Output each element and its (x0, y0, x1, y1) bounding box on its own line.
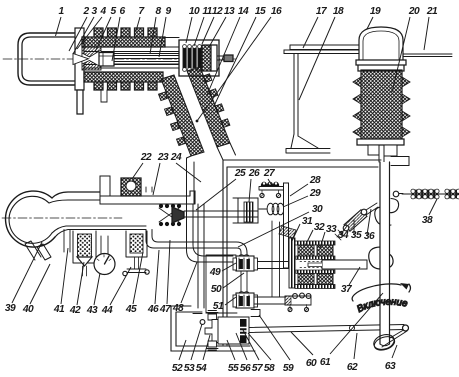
svg-text:16: 16 (271, 6, 282, 17)
upper hook on shaft (381, 199, 399, 213)
bead chain 38 beads group1 (411, 189, 439, 199)
svg-text:15: 15 (255, 6, 266, 17)
svg-text:59: 59 (283, 363, 294, 374)
neck inner line (49, 200, 100, 203)
leader 4 (77, 17, 102, 49)
svg-text:23: 23 (157, 152, 169, 163)
svg-text:55: 55 (228, 363, 239, 374)
bottom collar plates (357, 139, 404, 145)
winding hump holes (263, 182, 277, 184)
core gap contact dots upper (300, 261, 324, 263)
leader 57 (243, 330, 259, 360)
piston stack slits (240, 328, 247, 335)
cap 1 inner wall (22, 37, 74, 81)
leader 63 (392, 345, 397, 358)
long control rod 60 (249, 325, 404, 333)
solenoid 51 flanges (233, 295, 237, 307)
leader 27 (268, 179, 271, 184)
filter block center hole (126, 181, 136, 191)
leader 17 (303, 17, 318, 48)
svg-text:33: 33 (326, 224, 337, 235)
leader 37 (349, 267, 360, 285)
svg-text:47: 47 (159, 304, 172, 315)
centerline main horizontal axis (3, 58, 237, 60)
svg-text:46: 46 (147, 304, 159, 315)
coil winding lower left (298, 274, 314, 285)
end plug 12 (211, 45, 217, 71)
leader 44 (110, 267, 131, 305)
solenoid 51 winding marks (239, 292, 249, 306)
leader 51 (225, 297, 236, 305)
ignition coil core 31 laminated bar (289, 238, 295, 288)
link 36 to shaft (366, 203, 378, 215)
check valve 44 housing (126, 231, 147, 257)
leader 16 end dot (196, 120, 199, 123)
svg-text:34: 34 (338, 230, 349, 241)
svg-text:25: 25 (234, 168, 246, 179)
svg-text:26: 26 (248, 168, 260, 179)
shaft bottom tip (380, 344, 390, 346)
leader 41 (61, 248, 68, 304)
needle rod to holder (184, 211, 258, 217)
lower terminal screws (293, 294, 298, 299)
stem neck to shaft (379, 155, 384, 162)
svg-text:41: 41 (53, 304, 65, 315)
leader 24 (176, 163, 201, 182)
svg-text:28: 28 (309, 175, 321, 186)
leader 48 (181, 262, 197, 303)
piston 5 (99, 53, 114, 67)
cap 1 outer shell (18, 33, 74, 85)
insulator fins right (402, 77, 410, 137)
svg-text:45: 45 (125, 304, 137, 315)
svg-text:51: 51 (213, 301, 224, 312)
leader 11 (194, 17, 204, 46)
leader 6 (112, 17, 120, 61)
svg-text:21: 21 (426, 6, 438, 17)
air valve 42 mesh cage (78, 234, 92, 257)
drain pipe 40 left (25, 241, 41, 260)
bracket base plate (286, 149, 330, 154)
leader 28 (290, 184, 308, 196)
petcock end balls (123, 271, 127, 275)
leader 42 (77, 262, 84, 305)
holder hatched gland (244, 202, 253, 222)
solenoid 49 flanges (233, 258, 237, 270)
rotation arrowhead (400, 283, 409, 290)
svg-text:6: 6 (119, 6, 125, 17)
wire from hook to bead chain (399, 193, 403, 195)
terminal ground drops (288, 308, 292, 312)
leader 53 (191, 324, 202, 360)
stand upper plate (290, 45, 381, 50)
pressure gauge 43 dial (94, 254, 115, 275)
svg-text:5: 5 (110, 6, 116, 17)
outlet fitting bottom (207, 341, 219, 350)
svg-text:14: 14 (238, 6, 249, 17)
pipe A elbow from duct to solenoid 49 (146, 230, 247, 257)
leader 59 (259, 315, 290, 360)
leader 49 (222, 263, 236, 271)
mixing plate 23 (100, 191, 195, 204)
svg-text:18: 18 (333, 6, 344, 17)
armature plunger bar 37 (322, 260, 367, 269)
svg-text:38: 38 (422, 215, 433, 226)
bracket 18 vertical (294, 54, 298, 137)
leader 18 (299, 17, 335, 100)
panel outline around 49-51 labels (206, 255, 237, 313)
leader 21 (424, 17, 429, 50)
svg-text:17: 17 (316, 6, 328, 17)
svg-text:32: 32 (314, 222, 325, 233)
leader 9 (159, 17, 166, 57)
top collar plates (356, 60, 406, 71)
plunger notch (308, 263, 322, 267)
leader 47 (167, 240, 170, 304)
insulator fins left (353, 77, 361, 137)
venturi channel white hourglass (82, 50, 101, 67)
leader 45 (133, 252, 143, 304)
solenoid 51 dark coils (240, 296, 243, 306)
leader 23 (153, 163, 160, 195)
leader 40 (30, 264, 50, 304)
leader 43 (94, 273, 100, 305)
svg-text:63: 63 (385, 361, 396, 372)
fixed contact anchor hatched (279, 226, 296, 238)
breaker wires down (272, 221, 280, 297)
outlet fitting 59 on right top (251, 310, 260, 317)
svg-text:53: 53 (184, 363, 195, 374)
lower terminal block (285, 296, 311, 305)
body lower teeth (94, 82, 157, 90)
pump piston stack 58 dark column (240, 319, 247, 343)
svg-text:36: 36 (364, 231, 375, 242)
terminal drop symbols (261, 190, 263, 193)
diagonal tube 16 left hatched wall (161, 75, 204, 156)
duct bottom wall (52, 226, 146, 237)
svg-text:42: 42 (69, 305, 81, 316)
flange lower stem (77, 90, 83, 114)
adjuster knob end (224, 55, 233, 62)
insulator body 20 hatched (361, 70, 402, 139)
rod joint circle 61 (349, 325, 354, 330)
injector spring 25 upper coil dots (159, 204, 181, 226)
coil bottom plate (295, 285, 335, 289)
piston inner lines (99, 53, 114, 67)
support bracket left of plate 23 (100, 176, 110, 204)
leader 10 (186, 17, 192, 43)
pump box 52 outer wall (171, 306, 255, 351)
stand bar 17 (284, 50, 393, 54)
spring chamber housing 12 (179, 40, 219, 76)
valve 42 poppet (77, 257, 92, 266)
body top hatched band 7 (82, 37, 165, 47)
svg-text:31: 31 (302, 216, 313, 227)
solenoid 49 dark coils (240, 259, 243, 269)
piston T 54 (205, 320, 218, 343)
branch pipe below duct left (64, 230, 70, 253)
svg-text:39: 39 (5, 303, 16, 314)
leader 34 (341, 226, 347, 234)
resistor bar 27 base (259, 187, 284, 191)
gauge tick marks (97, 255, 111, 261)
core gap contact dots lower (300, 267, 324, 269)
svg-text:22: 22 (140, 152, 152, 163)
body lower hatched band (84, 72, 163, 82)
gauge 43 stem (101, 236, 108, 254)
svg-text:40: 40 (22, 304, 34, 315)
leader 58 (248, 333, 271, 360)
filter block 22 hatched (121, 178, 141, 196)
anchor below cylinder (335, 230, 344, 240)
lever collar ring around shaft (372, 332, 397, 352)
svg-text:57: 57 (252, 363, 264, 374)
check valve 44 mesh (130, 234, 143, 253)
injector spring zigzag (159, 208, 179, 222)
solenoid 49 winding marks (239, 255, 249, 269)
stem blocks below insulator (368, 145, 397, 156)
pipe A stub above duct (146, 187, 152, 192)
svg-text:7: 7 (138, 6, 145, 17)
nozzle cone 2 (73, 54, 89, 65)
piston rod 8 long tube (114, 54, 183, 65)
leader 13 (209, 17, 226, 47)
valve 42 stem (83, 266, 87, 276)
leader 22 (132, 163, 143, 179)
bead chain 38 dark ticks group2 (449, 190, 457, 199)
coil winding 32 upper left (298, 245, 314, 256)
leader 38 (429, 199, 437, 215)
float chamber ring 39 inner (9, 196, 52, 243)
hose nipple below body (101, 90, 107, 102)
leader 61 (330, 293, 383, 354)
leader 29 (283, 196, 308, 207)
leader 31 (292, 224, 300, 241)
svg-text:1: 1 (58, 6, 64, 17)
svg-text:4: 4 (99, 6, 106, 17)
chamber centerline (2, 217, 122, 219)
leader 7 (136, 17, 140, 31)
leader 39 (12, 242, 42, 303)
leader 54 (203, 335, 210, 360)
leader 3 (73, 17, 94, 54)
contact blade 28 vertical bar (284, 183, 289, 268)
rod holder bracket (233, 198, 258, 223)
venturi block hatched (82, 47, 101, 70)
electrode rod 21 (360, 54, 452, 57)
leader 26 (249, 179, 251, 202)
svg-text:62: 62 (347, 362, 358, 373)
svg-text:3: 3 (91, 6, 97, 17)
leader 15 (214, 17, 256, 106)
leader 19 (367, 17, 373, 29)
svg-text:50: 50 (211, 284, 222, 295)
petcock handle bar (127, 269, 146, 273)
leader 30 (238, 212, 309, 247)
tube lower channel left wall (187, 156, 195, 204)
valve 41 housing walls (73, 231, 96, 263)
spring coil end loops (183, 45, 202, 72)
solenoid valve 49 body (236, 256, 254, 271)
vertical feed pipe to lower box (198, 204, 204, 308)
svg-text:8: 8 (155, 6, 161, 17)
main box left wall (223, 160, 227, 345)
drain pipe 40 right (37, 244, 51, 260)
leader 12 (202, 17, 214, 44)
side block on shaft (391, 157, 409, 166)
spring 10 coils (183, 48, 201, 68)
pipe B elbow lower run (187, 204, 234, 262)
leader 35 (353, 219, 355, 234)
adjuster rod 13 (217, 56, 224, 60)
insulator dome 19 (359, 27, 403, 60)
leader 5 (95, 17, 111, 52)
lower terminal hatched end (285, 296, 291, 305)
coil winding lower right (317, 274, 333, 285)
leader 52 (179, 340, 186, 360)
lever 63 arms to collar (382, 330, 407, 347)
leader 8 (150, 17, 156, 54)
leader 20 (392, 17, 410, 92)
body top cooling teeth (94, 28, 157, 37)
drive shaft vertical (380, 162, 390, 344)
svg-text:54: 54 (196, 363, 207, 374)
inlet fitting 53 top (207, 311, 219, 321)
pump cylinder 55 housing (218, 317, 249, 344)
diagonal tube right teeth (203, 74, 230, 128)
leader 50 (223, 273, 244, 288)
coil top plate (295, 241, 335, 245)
dome inner line (363, 31, 399, 60)
leader 14 (207, 17, 240, 95)
bracket 18 foot (291, 134, 318, 148)
coil winding 33 upper right (317, 245, 333, 256)
leader 55 (227, 340, 235, 360)
leader 56 (236, 333, 247, 360)
mounting flange plate (75, 28, 84, 90)
contact spring 29 coil (259, 208, 267, 210)
neck from chamber to duct top (52, 192, 100, 198)
rotation arrow ellipse (352, 284, 410, 301)
upper winding base stripe (296, 256, 335, 259)
solenoid valve 51 body (236, 293, 254, 308)
svg-text:49: 49 (209, 267, 221, 278)
connecting pipe between solenoids (241, 271, 247, 293)
leader 2 (69, 17, 87, 51)
body outer casing outline (84, 38, 180, 69)
leader 62 (354, 333, 357, 359)
armature feed rod from solenoid (258, 262, 290, 269)
svg-text:10: 10 (189, 6, 200, 17)
injector needle cone 26 (172, 207, 184, 223)
svg-text:52: 52 (172, 363, 183, 374)
lower spiral catch on shaft (369, 247, 393, 269)
bead chain 38 dark ticks group1 (415, 190, 435, 199)
lever 63 pivot eye (403, 325, 409, 331)
leader 16 (197, 17, 271, 121)
svg-text:12: 12 (212, 6, 223, 17)
leader 32 (305, 230, 313, 246)
tube lower channel right wall (217, 143, 236, 160)
svg-text:9: 9 (165, 6, 171, 17)
leader 46 (155, 250, 159, 304)
svg-text:35: 35 (351, 230, 362, 241)
svg-text:44: 44 (101, 305, 113, 316)
fitting eye 53 (200, 320, 205, 325)
svg-text:60: 60 (306, 358, 317, 369)
bead chain 38 beads group2 (445, 189, 459, 199)
svg-text:29: 29 (309, 188, 321, 199)
svg-text:13: 13 (224, 6, 235, 17)
lower winding top stripe (296, 270, 335, 273)
main box top wall (223, 160, 381, 167)
leader 25 (196, 179, 236, 210)
cylinder end eye upper (361, 209, 367, 215)
diagonal tube left teeth (159, 92, 186, 146)
petcock 45 stem (135, 257, 139, 269)
svg-text:56: 56 (240, 363, 251, 374)
svg-text:2: 2 (82, 6, 89, 17)
svg-text:48: 48 (172, 303, 184, 314)
gauge needle (105, 256, 110, 264)
svg-text:27: 27 (263, 168, 276, 179)
svg-text:20: 20 (408, 6, 420, 17)
tensioner cylinder 34 tilted hatched (344, 210, 367, 232)
leader 1 (56, 17, 62, 36)
svg-text:61: 61 (320, 357, 331, 368)
middle catch hook (375, 207, 391, 226)
cylinder end eye lower (343, 225, 349, 231)
float chamber ring 39 outer (6, 191, 55, 247)
wire bar to terminal block (254, 297, 285, 304)
svg-text:24: 24 (170, 152, 182, 163)
svg-text:37: 37 (341, 284, 353, 295)
bead chain 38 wire (402, 193, 459, 195)
leader 36 (367, 209, 371, 235)
diagonal tube 16 right hatched wall (187, 67, 230, 147)
drive shaft white body (380, 162, 390, 345)
leader 60 (291, 332, 313, 355)
leader 33 (320, 232, 325, 248)
hook eye circle (393, 191, 399, 197)
svg-text:30: 30 (312, 204, 323, 215)
resistor 27 winding humps (261, 182, 279, 186)
spring retainer hatched 11 (202, 45, 211, 71)
rotation text Включение (359, 305, 419, 313)
svg-text:58: 58 (264, 363, 275, 374)
svg-text:43: 43 (86, 305, 98, 316)
svg-text:19: 19 (370, 6, 381, 17)
